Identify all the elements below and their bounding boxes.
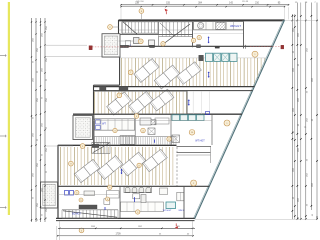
svg-text:525 200: 525 200: [136, 1, 144, 3]
svg-text:1709: 1709: [115, 234, 121, 236]
svg-text:WT HGT: WT HGT: [163, 210, 172, 212]
svg-text:WT: WT: [102, 122, 106, 125]
svg-text:BD HGT: BD HGT: [72, 213, 81, 215]
svg-text:120 38: 120 38: [242, 1, 249, 3]
svg-text:WM HGT: WM HGT: [230, 24, 241, 28]
svg-text:WT HGT: WT HGT: [195, 139, 205, 142]
